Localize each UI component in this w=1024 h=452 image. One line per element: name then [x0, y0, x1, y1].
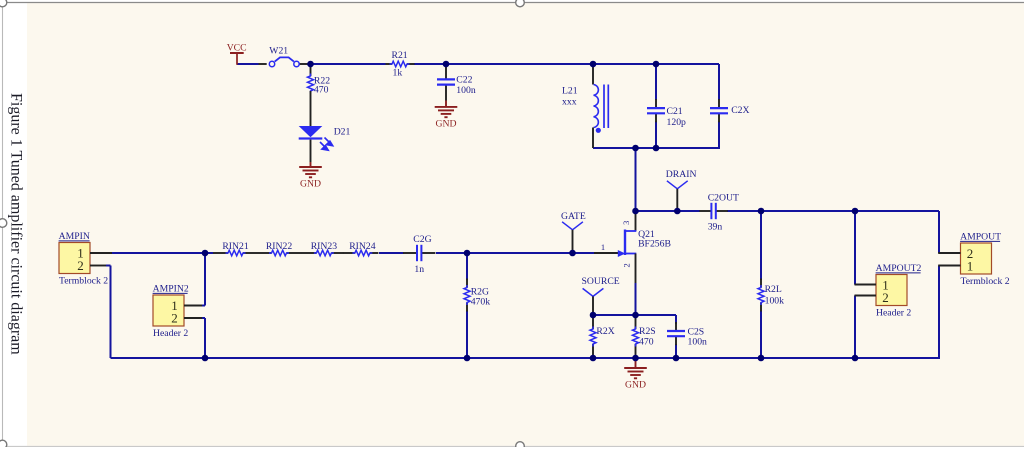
- svg-text:GATE: GATE: [561, 211, 586, 222]
- svg-text:Termblock 2: Termblock 2: [59, 276, 108, 287]
- svg-text:39n: 39n: [708, 221, 723, 232]
- svg-text:Termblock 2: Termblock 2: [961, 276, 1010, 287]
- svg-text:2: 2: [77, 258, 84, 273]
- svg-text:470: 470: [639, 337, 654, 348]
- svg-text:R2S: R2S: [639, 326, 656, 337]
- svg-text:GND: GND: [625, 380, 646, 391]
- svg-text:SOURCE: SOURCE: [582, 276, 620, 287]
- svg-text:RIN24: RIN24: [349, 241, 376, 252]
- svg-text:3: 3: [621, 221, 631, 225]
- svg-text:2: 2: [622, 263, 632, 267]
- svg-text:xxx: xxx: [562, 96, 577, 107]
- svg-text:C2X: C2X: [731, 105, 749, 116]
- svg-text:1k: 1k: [393, 68, 403, 79]
- svg-text:100n: 100n: [688, 337, 708, 348]
- svg-text:470: 470: [314, 85, 329, 96]
- svg-text:RIN22: RIN22: [266, 241, 293, 252]
- svg-text:R21: R21: [392, 50, 408, 61]
- svg-text:120p: 120p: [667, 117, 687, 128]
- svg-text:RIN23: RIN23: [311, 241, 338, 252]
- svg-text:C21: C21: [667, 106, 683, 117]
- svg-text:1n: 1n: [414, 264, 424, 275]
- svg-text:Header 2: Header 2: [876, 308, 911, 319]
- svg-text:1: 1: [967, 258, 974, 273]
- svg-text:2: 2: [171, 310, 178, 325]
- svg-text:R2L: R2L: [765, 284, 782, 295]
- svg-text:100n: 100n: [456, 85, 476, 96]
- svg-text:100k: 100k: [765, 295, 785, 306]
- svg-text:C2G: C2G: [413, 234, 431, 245]
- svg-text:RIN21: RIN21: [222, 241, 249, 252]
- svg-text:AMPIN: AMPIN: [59, 231, 90, 242]
- svg-text:470k: 470k: [471, 297, 491, 308]
- svg-text:BF256B: BF256B: [638, 239, 671, 250]
- svg-text:2: 2: [882, 290, 889, 305]
- svg-text:AMPIN2: AMPIN2: [153, 283, 189, 294]
- svg-text:L21: L21: [562, 86, 578, 97]
- svg-text:C22: C22: [456, 74, 472, 85]
- svg-text:GND: GND: [300, 179, 321, 190]
- svg-text:1: 1: [601, 242, 605, 252]
- svg-text:W21: W21: [269, 45, 288, 56]
- svg-text:R2X: R2X: [596, 326, 614, 337]
- svg-text:AMPOUT2: AMPOUT2: [876, 263, 922, 274]
- svg-text:GND: GND: [436, 118, 457, 129]
- svg-text:AMPOUT: AMPOUT: [960, 231, 1001, 242]
- svg-text:Figure 1 Tuned amplifier circu: Figure 1 Tuned amplifier circuit diagram: [8, 93, 25, 355]
- svg-text:C2OUT: C2OUT: [708, 192, 739, 203]
- svg-text:D21: D21: [334, 126, 351, 137]
- svg-text:DRAIN: DRAIN: [666, 169, 697, 180]
- svg-text:Header 2: Header 2: [153, 328, 188, 339]
